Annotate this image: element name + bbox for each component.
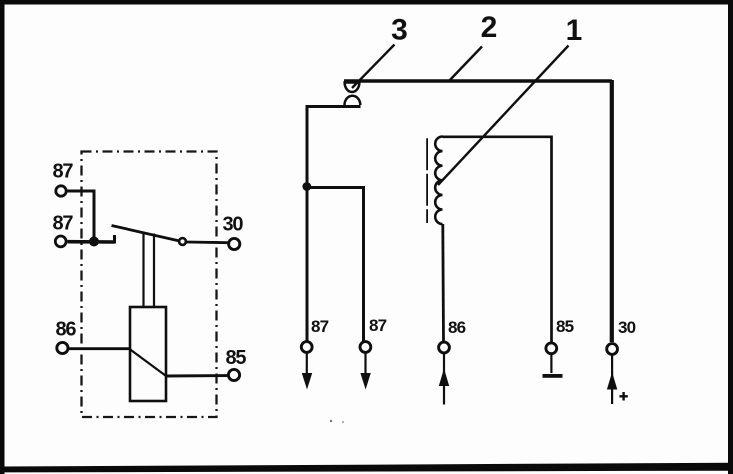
terminal 87 top circle [56, 186, 66, 196]
terminal circle 30 [607, 344, 618, 355]
svg-text:87: 87 [53, 213, 74, 235]
svg-text:2: 2 [481, 11, 498, 44]
speck noise dots [330, 420, 332, 422]
terminal 30 circle [229, 238, 240, 249]
wire to terminal 30 [187, 241, 229, 244]
wire from coil top to 85 [443, 137, 552, 343]
svg-text:30: 30 [618, 318, 636, 337]
switch arm [112, 226, 179, 241]
svg-text:85: 85 [226, 347, 247, 369]
actuator link (two parallel lines) [142, 232, 144, 308]
wire from coil to terminal 85 [166, 374, 228, 377]
coil internal diagonal [130, 350, 166, 376]
fixed contact step [113, 235, 116, 244]
ground bar [543, 374, 563, 378]
relay coil rectangle [130, 307, 166, 401]
terminal circle 85 [546, 343, 557, 354]
border frame right [728, 0, 733, 474]
border frame top [0, 0, 733, 5]
terminal circle 87 first [301, 342, 312, 353]
wire from terminal 87 second [68, 240, 115, 244]
contact 3: lower dome [345, 96, 361, 105]
arrow down from 87 second [364, 354, 366, 377]
wire from terminal 86 to coil [69, 347, 130, 350]
svg-text:1: 1 [566, 14, 583, 47]
wire branch to second 87 [307, 188, 364, 343]
terminal 86 circle [57, 342, 68, 353]
ground lead 85 [550, 355, 552, 374]
terminal circle 87 second [360, 342, 371, 353]
coil 1 windings [435, 137, 442, 225]
svg-text:85: 85 [556, 317, 574, 336]
terminal circle 86 [439, 342, 450, 353]
terminal 85 circle [228, 369, 239, 380]
wire from terminal 87 top [68, 191, 95, 242]
border frame bottom [0, 463, 733, 473]
junction dot (87 branch) [302, 182, 311, 191]
border frame left [0, 0, 5, 474]
svg-text:86: 86 [56, 319, 77, 341]
arrow up into 86 [443, 354, 445, 405]
svg-text:87: 87 [53, 161, 74, 183]
plus sign [619, 392, 627, 401]
wire 2: top feed wire [344, 79, 612, 82]
contact 3: upper half-disc [345, 83, 360, 93]
terminal 87 second circle [55, 236, 66, 247]
leader line 3 [352, 45, 395, 89]
svg-text:86: 86 [448, 318, 466, 337]
leader line 2 [449, 47, 483, 82]
svg-text:3: 3 [391, 14, 408, 47]
svg-text:30: 30 [223, 214, 244, 236]
arrow down from 87 first [306, 354, 308, 377]
wire from lower contact [307, 107, 361, 343]
arrow up into 30 (+ feed) [611, 356, 613, 405]
svg-text:87: 87 [311, 317, 329, 336]
relay K internal-diagram dashed outline [82, 152, 217, 418]
movable contact pivot dot [179, 238, 186, 245]
svg-text:87: 87 [369, 316, 387, 335]
wire from coil bottom to 86 [441, 224, 445, 342]
leader line 1 [438, 46, 569, 186]
junction dot (87 wires) [89, 237, 99, 247]
coil 1 core line [426, 138, 428, 223]
